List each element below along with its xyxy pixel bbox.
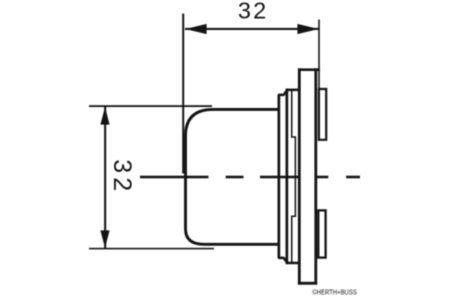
dimension line top 32 [185,28,319,30]
centerline dash 5 [346,176,360,179]
extension line bottom horizontal (body bottom) [89,248,214,250]
gasket ring 2 top edge [287,89,300,92]
gasket ring 2 bottom edge [287,262,300,265]
gasket ring 1 vertical [278,95,281,258]
centerline dash 3 [260,176,298,179]
arrowhead top-right [297,24,318,34]
arrowhead left-top [100,107,109,125]
socket shaft jog top [291,136,296,138]
gasket ring 1 bottom edge [278,258,288,263]
mounting plate right edge [314,68,317,284]
extension line top horizontal (body top) [89,105,212,107]
socket shaft upper line [291,90,293,137]
arrowhead top-left [185,24,206,34]
socket shaft jog bottom [291,216,296,218]
centerline dash 2 [226,176,244,179]
top clip rectangle [319,89,326,140]
socket shaft lower line [291,216,293,264]
dimension line left 32 vertical [104,106,106,248]
extension line right vertical (plate rear) [318,20,320,90]
gasket ring 2 vertical [286,89,289,265]
centerline dash 4 [316,176,328,179]
extension line left vertical (lens front) [182,14,184,174]
mounting plate left edge [298,68,301,284]
svg-text:©HERTH+BUSS: ©HERTH+BUSS [312,288,357,297]
arrowhead left-bottom [100,230,109,248]
socket shaft middle line [295,136,297,217]
centerline dash 1 [140,176,209,179]
bottom clip rectangle [318,210,325,257]
gasket ring 1 top edge [278,90,288,95]
mounting plate top edge [298,68,320,71]
lamp lens body outline [186,109,279,244]
svg-text:32: 32 [238,0,269,24]
svg-text:32: 32 [108,159,136,195]
mounting plate bottom edge [298,282,317,285]
